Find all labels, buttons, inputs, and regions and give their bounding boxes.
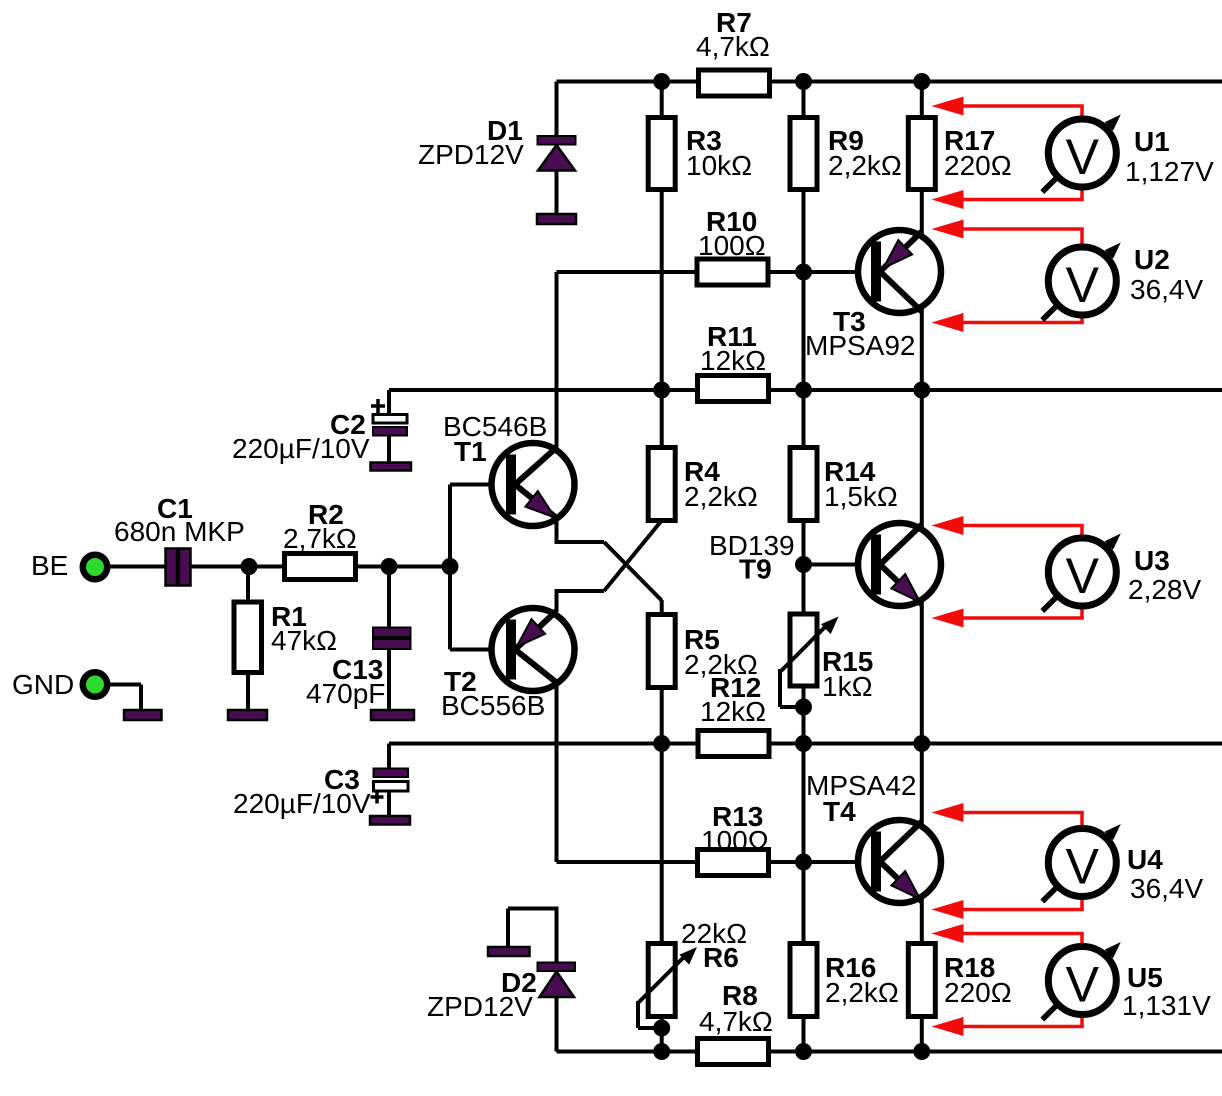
label U1 <box>1134 126 1170 157</box>
ground bar under C2 <box>371 463 412 471</box>
wire D2 branch <box>508 907 557 1052</box>
svg-text:680n MKP: 680n MKP <box>114 516 245 547</box>
svg-text:2,28V: 2,28V <box>1128 574 1201 605</box>
ground bar under C13 <box>371 710 414 720</box>
node bottom bus / R18 <box>913 1043 930 1060</box>
label R17 <box>944 125 995 156</box>
label C3 <box>324 764 360 795</box>
svg-text:U1: U1 <box>1134 126 1170 157</box>
svg-text:BC556B: BC556B <box>441 690 545 721</box>
wire T1 emitter to R5 <box>555 517 662 601</box>
svg-text:12kΩ: 12kΩ <box>700 345 766 376</box>
svg-text:V: V <box>1066 257 1100 313</box>
label U4 value <box>1130 873 1203 904</box>
label R8 <box>722 980 758 1011</box>
wire C3 branch <box>387 744 391 817</box>
resistor R5 <box>648 615 675 688</box>
red measurement arrows U2 <box>932 220 1084 333</box>
node R12 bus / R15-R16 <box>795 735 812 752</box>
wire C2 branch <box>387 390 391 463</box>
red measurement arrows U1 <box>932 97 1084 210</box>
svg-text:2,2kΩ: 2,2kΩ <box>828 150 902 181</box>
wire R1 branch <box>246 567 250 711</box>
wire C13 branch <box>387 567 391 711</box>
capacitor C13 470pF <box>373 628 411 650</box>
label R3 <box>686 125 722 156</box>
label R15 <box>822 646 873 677</box>
label R12 value <box>700 696 766 727</box>
label U2 value <box>1130 274 1203 305</box>
node R12 bus / R5-R6 <box>653 735 670 752</box>
svg-text:36,4V: 36,4V <box>1130 873 1203 904</box>
svg-text:R6: R6 <box>703 942 739 973</box>
wire T1 collector to R10 <box>555 272 559 449</box>
label T3 type <box>805 330 916 361</box>
ground bar at GND terminal <box>124 710 162 720</box>
label U4 <box>1127 844 1163 875</box>
node R11 bus / R4 <box>653 382 670 399</box>
wire top supply bus <box>557 80 1222 84</box>
wire R10 line to T3 base <box>557 270 872 274</box>
svg-text:2,7kΩ: 2,7kΩ <box>283 523 357 554</box>
label R1 value <box>271 625 337 656</box>
svg-text:12kΩ: 12kΩ <box>700 696 766 727</box>
svg-text:ZPD12V: ZPD12V <box>418 139 524 170</box>
wire R15 wiper tap <box>780 669 804 707</box>
wire T2 collector to R13 <box>555 681 559 862</box>
voltmeter U5 <box>1042 942 1121 1020</box>
wire R12 bus <box>389 742 1222 746</box>
label R14 value <box>824 481 898 512</box>
wire column R9-R14-R15-R16 <box>802 82 806 1052</box>
svg-text:U5: U5 <box>1127 962 1163 993</box>
label T4 type <box>806 770 917 801</box>
potentiometer R6 wiper arrow <box>638 947 697 1003</box>
resistor R6 <box>648 944 675 1017</box>
wire bottom bus <box>557 1050 1222 1054</box>
wire input line <box>110 565 450 569</box>
label R4 <box>684 456 720 487</box>
label U1 value <box>1125 156 1214 187</box>
resistor R17 <box>908 118 935 190</box>
svg-text:V: V <box>1066 957 1100 1013</box>
label T3 <box>833 306 866 337</box>
label R10 <box>706 206 757 237</box>
red measurement arrows U5 <box>932 924 1084 1036</box>
node bottom bus / R6 <box>653 1043 670 1060</box>
ground bar left of D2 <box>488 947 530 956</box>
label R17 value <box>944 150 1012 181</box>
resistor R4 <box>648 448 675 521</box>
label R18 <box>944 952 995 983</box>
wire column R5-R6 <box>660 600 664 1052</box>
node R6 wiper <box>653 1020 670 1037</box>
label R14 <box>824 456 876 487</box>
svg-text:100Ω: 100Ω <box>701 825 769 856</box>
svg-text:220µF/10V: 220µF/10V <box>232 433 370 464</box>
voltmeter U4 <box>1042 824 1121 902</box>
resistor R10 <box>697 259 768 285</box>
svg-text:470pF: 470pF <box>306 678 385 709</box>
node bottom bus / R16 <box>795 1043 812 1060</box>
label R2 <box>308 499 344 530</box>
label R11 <box>707 321 757 352</box>
label C1 <box>157 493 193 524</box>
wire R11 bus <box>389 388 1222 392</box>
node R11 bus / R14 <box>795 382 812 399</box>
resistor R7 <box>699 70 770 96</box>
label U3 value <box>1128 574 1201 605</box>
capacitor C3 220uF/10V electrolytic <box>371 769 409 804</box>
svg-text:U4: U4 <box>1127 844 1163 875</box>
svg-text:1,127V: 1,127V <box>1125 156 1214 187</box>
label D1 value <box>418 139 524 170</box>
terminal BE <box>80 552 111 583</box>
svg-text:1kΩ: 1kΩ <box>822 671 873 702</box>
svg-text:2,2kΩ: 2,2kΩ <box>825 977 899 1008</box>
label BE <box>31 550 68 581</box>
wire R13 line to T4 base <box>557 860 872 864</box>
svg-text:36,4V: 36,4V <box>1130 274 1203 305</box>
wire R6 wiper tap <box>638 1001 662 1028</box>
label R4 value <box>684 481 758 512</box>
svg-text:T4: T4 <box>823 796 856 827</box>
wire column R17-T3-T9-T4-R18 <box>920 82 924 1052</box>
label R16 value <box>825 977 899 1008</box>
wire column R3-R4 <box>660 82 664 521</box>
wire D1 branch <box>555 82 559 220</box>
node top bus / R17 <box>913 73 930 90</box>
svg-text:47kΩ: 47kΩ <box>271 625 337 656</box>
resistor R12 <box>698 731 769 757</box>
diode D1 ZPD12V zener <box>538 136 576 171</box>
resistor R3 <box>648 118 675 190</box>
node input / R1 <box>241 558 258 575</box>
svg-text:V: V <box>1066 548 1100 604</box>
svg-text:T1: T1 <box>454 436 487 467</box>
svg-text:1,5kΩ: 1,5kΩ <box>824 481 898 512</box>
svg-text:BE: BE <box>31 550 68 581</box>
label R5 <box>684 624 720 655</box>
label U5 value <box>1122 990 1211 1021</box>
label R8 value <box>699 1006 773 1037</box>
node R15 wiper <box>795 699 812 716</box>
node R13 / T4 base <box>795 854 812 871</box>
svg-text:T9: T9 <box>739 554 772 585</box>
label D1 <box>487 115 523 146</box>
label C13 value <box>306 678 385 709</box>
label T2 <box>444 666 477 697</box>
svg-text:U2: U2 <box>1134 244 1170 275</box>
wire T2 emitter to R4 <box>555 521 662 613</box>
label R5 value <box>684 649 758 680</box>
svg-text:ZPD12V: ZPD12V <box>427 991 533 1022</box>
node R11 bus / T-bus <box>913 382 930 399</box>
svg-text:4,7kΩ: 4,7kΩ <box>696 31 770 62</box>
label R9 value <box>828 150 902 181</box>
svg-text:220Ω: 220Ω <box>944 150 1012 181</box>
svg-text:GND: GND <box>12 669 74 700</box>
label R16 <box>825 952 876 983</box>
label R11 value <box>700 345 766 376</box>
ground bar under R1 <box>228 710 267 720</box>
potentiometer R15 wiper arrow <box>780 617 839 673</box>
label U3 <box>1134 545 1170 576</box>
resistor R18 <box>908 944 935 1017</box>
label U2 <box>1134 244 1170 275</box>
svg-text:100Ω: 100Ω <box>698 230 766 261</box>
svg-text:MPSA92: MPSA92 <box>805 330 916 361</box>
wire T1/T2 base connector <box>450 485 506 650</box>
svg-text:1,131V: 1,131V <box>1122 990 1211 1021</box>
transistor T4 MPSA42 <box>858 820 941 903</box>
resistor R8 <box>698 1039 769 1065</box>
voltmeter U2 <box>1042 243 1121 321</box>
svg-text:220Ω: 220Ω <box>944 977 1012 1008</box>
resistor R11 <box>698 376 769 402</box>
ground bar under D1 <box>537 214 576 224</box>
transistor T3 MPSA92 <box>858 230 941 313</box>
label D2 value <box>427 991 533 1022</box>
terminal GND <box>80 669 111 700</box>
label R18 value <box>944 977 1012 1008</box>
label C13 <box>332 654 383 685</box>
label C2 <box>330 409 366 440</box>
node input / T1-T2 bases <box>442 558 459 575</box>
label R6 value <box>681 918 747 949</box>
svg-text:4,7kΩ: 4,7kΩ <box>699 1006 773 1037</box>
svg-text:10kΩ: 10kΩ <box>686 150 752 181</box>
label R6 <box>703 942 739 973</box>
label R15 value <box>822 671 873 702</box>
wire GND branch <box>110 685 141 711</box>
transistor T2 BC556B <box>492 608 575 691</box>
svg-text:220µF/10V: 220µF/10V <box>233 788 371 819</box>
diode D2 ZPD12V zener <box>538 963 576 998</box>
label C3 value <box>233 788 371 819</box>
label R1 <box>271 601 307 632</box>
label R9 <box>828 125 864 156</box>
label T1 type <box>443 411 547 442</box>
label T2 type <box>441 690 545 721</box>
label R7 <box>716 7 752 38</box>
resistor R13 <box>698 850 769 876</box>
label C2 value <box>232 433 370 464</box>
label R13 value <box>701 825 769 856</box>
label R3 value <box>686 150 752 181</box>
node R12 bus / T-bus <box>913 735 930 752</box>
transistor T9 BD139 <box>858 523 941 606</box>
label U5 <box>1127 962 1163 993</box>
svg-text:U3: U3 <box>1134 545 1170 576</box>
label R10 value <box>698 230 766 261</box>
node T9 base / R14-R15 <box>795 556 812 573</box>
node input / C13 <box>381 558 398 575</box>
node R10 / R9 <box>795 264 812 281</box>
label T9 <box>739 554 772 585</box>
red measurement arrows U4 <box>932 803 1084 919</box>
label C1 value <box>114 516 245 547</box>
svg-text:V: V <box>1066 129 1100 185</box>
label T1 <box>454 436 487 467</box>
node top bus / R9 <box>795 73 812 90</box>
wire T9 base <box>804 563 872 567</box>
svg-text:V: V <box>1066 839 1100 895</box>
label T9 type <box>709 530 795 561</box>
label R2 value <box>283 523 357 554</box>
label GND <box>12 669 74 700</box>
resistor R16 <box>790 944 817 1017</box>
resistor R9 <box>790 118 817 190</box>
voltmeter U1 <box>1042 115 1121 193</box>
transistor T1 BC546B <box>492 443 575 526</box>
svg-text:2,2kΩ: 2,2kΩ <box>684 481 758 512</box>
capacitor C1 680n MKP <box>166 549 191 586</box>
ground bar under C3 <box>370 816 410 825</box>
resistor R15 <box>790 614 817 686</box>
resistor R2 <box>285 554 356 580</box>
label D2 <box>501 967 537 998</box>
red measurement arrows U3 <box>932 516 1084 628</box>
resistor R14 <box>790 448 817 521</box>
label T4 <box>823 796 856 827</box>
node top bus / R3 <box>653 73 670 90</box>
capacitor C2 220uF/10V electrolytic <box>371 399 407 436</box>
label R12 <box>710 672 761 703</box>
voltmeter U3 <box>1042 534 1121 612</box>
label R13 <box>712 801 763 832</box>
resistor R1 <box>234 602 262 673</box>
label R7 value <box>696 31 770 62</box>
